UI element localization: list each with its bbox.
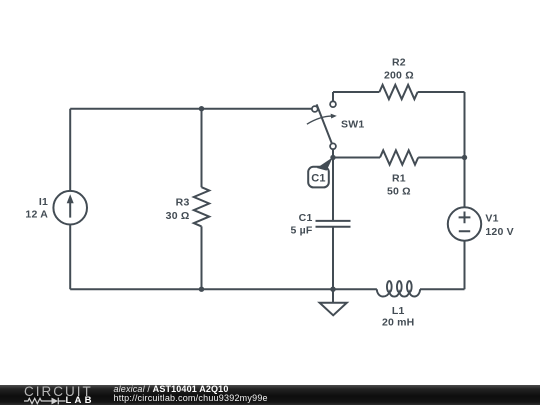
svg-text:R2: R2 [392, 57, 406, 69]
svg-text:SW1: SW1 [341, 119, 364, 131]
svg-text:I1: I1 [39, 196, 48, 208]
svg-text:12 A: 12 A [25, 209, 48, 221]
svg-text:5 µF: 5 µF [290, 225, 312, 237]
svg-text:50 Ω: 50 Ω [387, 185, 411, 197]
svg-text:R1: R1 [392, 172, 406, 184]
svg-text:R3: R3 [176, 197, 190, 209]
svg-text:V1: V1 [485, 213, 498, 225]
svg-text:20 mH: 20 mH [382, 317, 415, 329]
svg-text:L1: L1 [392, 305, 405, 317]
svg-text:120 V: 120 V [485, 226, 513, 238]
svg-text:C1: C1 [299, 212, 313, 224]
svg-text:30 Ω: 30 Ω [166, 210, 190, 222]
svg-text:200 Ω: 200 Ω [384, 70, 414, 82]
svg-text:C1: C1 [311, 172, 325, 184]
